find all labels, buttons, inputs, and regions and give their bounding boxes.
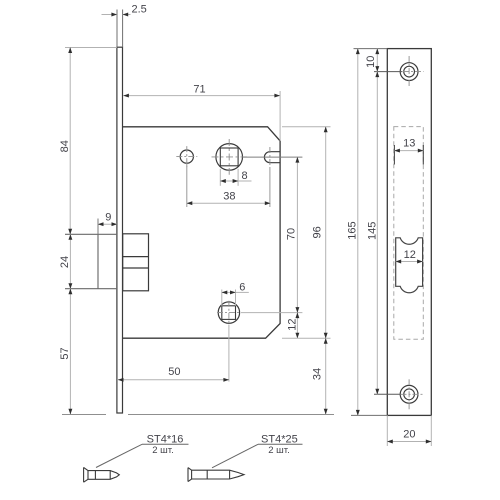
svg-text:34: 34 bbox=[312, 368, 324, 380]
faceplate front outline bbox=[387, 49, 431, 416]
dimension 2.5 bbox=[102, 14, 117, 16]
ext line body bottom right bbox=[282, 337, 331, 339]
small circle crosshair bbox=[176, 156, 197, 158]
screw ST4*25 bbox=[188, 468, 244, 482]
spindle square bbox=[220, 148, 238, 166]
dimension 165 bbox=[357, 49, 359, 416]
svg-text:165: 165 bbox=[346, 221, 358, 239]
dimension 145 bbox=[376, 72, 378, 395]
svg-text:20: 20 bbox=[403, 429, 415, 441]
svg-text:145: 145 bbox=[367, 222, 379, 240]
svg-text:2 шт.: 2 шт. bbox=[268, 445, 289, 456]
svg-text:84: 84 bbox=[59, 140, 71, 152]
ext line bottom circle center right bbox=[241, 312, 302, 314]
big circle (spindle hole) bbox=[216, 144, 243, 171]
dimension 6 bbox=[221, 290, 223, 306]
leader ST4*16 bbox=[96, 444, 142, 467]
slot horizontal center line bbox=[243, 156, 303, 158]
dimension 24 bbox=[69, 234, 71, 288]
svg-text:24: 24 bbox=[59, 256, 71, 268]
dimension 13 extension segments bbox=[393, 145, 395, 165]
latch inner box bbox=[123, 234, 149, 291]
dimension 96 bbox=[325, 127, 327, 338]
svg-text:2 шт.: 2 шт. bbox=[152, 445, 173, 456]
dimension 10 bbox=[376, 49, 378, 72]
bottom edge extension left bbox=[351, 414, 387, 416]
bottom circle bbox=[218, 302, 239, 323]
svg-text:13: 13 bbox=[403, 137, 415, 149]
slot vertical center line bbox=[269, 147, 271, 169]
bottom long extension line bbox=[62, 414, 106, 416]
screw ST4*16 bbox=[84, 467, 120, 482]
dimension 12 (right view) bbox=[396, 261, 423, 263]
dimension 50 bbox=[228, 325, 230, 382]
svg-text:12: 12 bbox=[286, 318, 298, 330]
lock body outline bbox=[123, 127, 280, 338]
faceplate extension lines above (for 2.5 dim) bbox=[116, 10, 118, 48]
dimension 20 bbox=[386, 415, 388, 446]
svg-text:71: 71 bbox=[193, 83, 205, 95]
bottom square bbox=[222, 306, 236, 320]
ext line right edge up bbox=[279, 91, 281, 141]
top screw hole bbox=[400, 63, 418, 81]
svg-text:9: 9 bbox=[105, 211, 111, 223]
dimension 13 bbox=[394, 150, 423, 152]
leader ST4*25 bbox=[212, 444, 258, 468]
key slot (stadium) bbox=[264, 152, 280, 163]
svg-text:10: 10 bbox=[365, 56, 377, 68]
dimension 71 bbox=[123, 95, 280, 97]
ext line body top right bbox=[282, 126, 331, 128]
top edge extension left bbox=[354, 48, 388, 50]
svg-text:2.5: 2.5 bbox=[132, 4, 147, 16]
svg-text:96: 96 bbox=[312, 226, 324, 238]
top screw ext line (to 10/145 dims) bbox=[374, 71, 403, 73]
svg-text:ST4*16: ST4*16 bbox=[147, 433, 184, 445]
svg-text:50: 50 bbox=[168, 366, 180, 378]
dimension 34 bbox=[325, 338, 327, 414]
dimension 38 bbox=[186, 164, 188, 208]
bottom circle crosshair bbox=[217, 312, 241, 314]
svg-text:12: 12 bbox=[404, 249, 416, 261]
faceplate strip bbox=[117, 47, 123, 413]
svg-text:57: 57 bbox=[59, 347, 71, 359]
svg-text:70: 70 bbox=[285, 228, 297, 240]
bottom screw hole bbox=[400, 385, 418, 403]
svg-text:6: 6 bbox=[239, 282, 245, 294]
big circle crosshair bbox=[212, 156, 248, 158]
dimension 70 bbox=[296, 157, 298, 313]
dimension 9 bbox=[97, 219, 99, 235]
dimension 8 bbox=[219, 169, 221, 186]
small circle bbox=[180, 150, 193, 163]
dashed case rectangle bbox=[394, 127, 424, 340]
bottom screw ext line bbox=[374, 393, 401, 395]
dimension 57 bbox=[69, 289, 71, 415]
svg-text:8: 8 bbox=[241, 170, 247, 182]
svg-text:38: 38 bbox=[223, 191, 235, 203]
dimension 12 (left view) bbox=[296, 313, 298, 339]
svg-text:ST4*25: ST4*25 bbox=[261, 433, 298, 445]
latch cutout spool bbox=[396, 238, 423, 293]
latch bolt front bbox=[65, 234, 117, 288]
dimension 84 bbox=[65, 47, 117, 49]
